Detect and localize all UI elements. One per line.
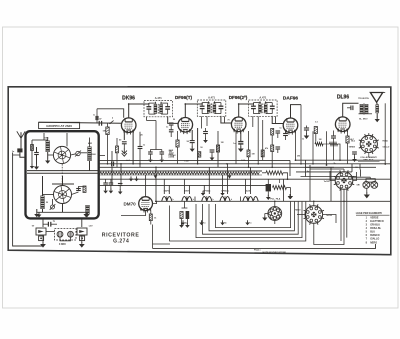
resistor R11: [346, 136, 349, 143]
svg-text:GRI: GRI: [357, 185, 361, 187]
svg-text:LEGE PER ELEMENTI: LEGE PER ELEMENTI: [356, 212, 382, 215]
wire: [347, 143, 349, 164]
junction: [132, 163, 134, 165]
wire left drop: [13, 153, 43, 247]
wire: [177, 147, 179, 164]
wire: [227, 164, 229, 194]
GRUPPO AT 2620 enclosure: [26, 131, 99, 218]
speaker coil: [376, 104, 379, 113]
wire: [42, 219, 44, 227]
junction: [287, 178, 289, 180]
svg-text:A.471: A.471: [155, 96, 162, 100]
wire: [89, 138, 91, 147]
svg-text:2: 2: [366, 220, 368, 223]
tube V3 DF96(2): [231, 117, 246, 132]
wire cathode V3: [240, 132, 242, 142]
speaker triangle: [370, 93, 382, 103]
bus (y167.3): [99, 166, 334, 168]
ground C17: [306, 133, 308, 135]
wire: [186, 219, 188, 224]
wire: [205, 128, 207, 132]
wire: [359, 164, 361, 170]
ground V1 cathode: [122, 151, 127, 154]
wire: [116, 153, 118, 168]
wire: [119, 186, 121, 191]
wire: [211, 152, 213, 157]
wire: [206, 116, 208, 126]
svg-text:1n: 1n: [143, 144, 146, 146]
connector box dashed: [55, 229, 77, 241]
pot R12 zigzag: [266, 171, 283, 175]
wire: [309, 165, 311, 201]
wire: [99, 159, 290, 161]
ground (osc): [47, 158, 49, 160]
wire screen V2: [191, 130, 193, 141]
wire: [32, 139, 48, 141]
svg-text:A.471: A.471: [259, 95, 266, 99]
wire T3 out: [272, 116, 283, 124]
pot R13 zigzag: [273, 186, 287, 190]
junction: [128, 103, 130, 105]
svg-text:1: 1: [366, 216, 368, 219]
wire: [368, 153, 370, 157]
wire: [264, 214, 266, 216]
cap C10: [169, 122, 174, 124]
wire: [240, 144, 242, 148]
wire: [123, 144, 125, 148]
junction: [248, 166, 250, 168]
svg-text:1k: 1k: [154, 218, 157, 220]
wire: [116, 138, 118, 146]
wire antenna to box: [20, 152, 26, 157]
junction: [274, 200, 276, 202]
wire: [351, 164, 353, 172]
battery plug P1: [36, 228, 46, 235]
cap C12: [190, 140, 195, 142]
junction: [155, 200, 157, 202]
wire T1 out: [168, 116, 178, 123]
wire: [80, 152, 87, 154]
wire plate V2: [185, 103, 202, 118]
ground: [36, 164, 38, 166]
wire: [149, 150, 151, 153]
wire: [323, 143, 330, 145]
band pointer 2: [154, 175, 158, 178]
wire: [310, 168, 330, 170]
wire: [81, 219, 83, 227]
wire: [314, 189, 344, 244]
wire: [287, 187, 291, 189]
svg-text:ROSA-BL: ROSA-BL: [370, 227, 381, 230]
wire: [110, 179, 112, 183]
wire: [42, 176, 44, 196]
svg-text:OSC: OSC: [44, 138, 49, 140]
wire AVC: [295, 131, 297, 160]
pointer arrow on band: [228, 175, 232, 178]
svg-text:Tw/105: Tw/105: [326, 215, 332, 217]
svg-text:47k: 47k: [265, 147, 269, 150]
wire: [347, 107, 351, 109]
cap C8: [148, 151, 153, 153]
wire: [188, 185, 190, 194]
wire: [330, 168, 344, 170]
resistor R4: [198, 152, 201, 157]
cap C5: [350, 106, 352, 111]
wire: [366, 189, 368, 194]
svg-text:VERDE: VERDE: [349, 147, 356, 149]
cap C27: [95, 116, 97, 120]
ground: [31, 164, 33, 166]
wire: [248, 157, 250, 168]
svg-text:k: k: [213, 199, 215, 201]
junction: [295, 159, 297, 161]
junction: [238, 103, 240, 105]
wire plate V5: [343, 103, 359, 117]
wire: [306, 126, 308, 129]
svg-text:BLU: BLU: [351, 141, 355, 143]
resistor R14: [149, 214, 152, 221]
wire: [250, 167, 252, 194]
wire: [155, 167, 157, 201]
svg-text:Tw/105: Tw/105: [324, 181, 330, 183]
svg-text:6: 6: [366, 234, 368, 237]
svg-text:DF96(T): DF96(T): [203, 191, 210, 193]
wire: [52, 199, 54, 205]
ground C8: [149, 157, 151, 159]
tube V6 DM70: [139, 197, 153, 211]
wire: [376, 102, 379, 104]
wire: [333, 131, 335, 137]
svg-text:1M: 1M: [252, 154, 255, 156]
ground pot: [290, 194, 292, 196]
wire: [346, 189, 348, 238]
ground f1: [202, 191, 204, 193]
wire: [161, 150, 163, 153]
svg-text:GIALLO: GIALLO: [383, 146, 390, 149]
junction: [384, 163, 386, 165]
GRUPPO AT 2620 label box: [39, 122, 80, 128]
wire: [340, 189, 342, 241]
pilot lamp LP2: [371, 182, 378, 189]
band borders: [99, 170, 262, 172]
wire: [194, 197, 196, 202]
wire: [376, 113, 378, 117]
cap C24 series: [111, 161, 113, 166]
wire: [224, 117, 226, 124]
cap C18: [331, 135, 336, 137]
wire: [257, 116, 259, 128]
wire: [275, 117, 277, 124]
svg-text:A.471: A.471: [208, 95, 215, 99]
wire: [359, 113, 373, 115]
tap c: [222, 220, 224, 222]
bus AVC (y163.8): [99, 163, 391, 165]
wire: [170, 132, 172, 137]
svg-text:8: 8: [366, 241, 368, 244]
wire: [52, 183, 74, 185]
resistor R10 zigzag: [330, 142, 338, 145]
wire: [111, 151, 113, 185]
ground: [36, 212, 38, 214]
wire: [333, 138, 335, 160]
wire: [323, 215, 336, 224]
svg-text:k: k: [193, 199, 195, 201]
wire: [285, 132, 287, 134]
filament tap DM70: [162, 197, 167, 202]
socket S-D pinout: [360, 135, 377, 152]
svg-text:VERDE: VERDE: [370, 216, 379, 219]
wire: [271, 152, 273, 168]
wire: [170, 125, 172, 130]
resistor R2: [106, 127, 109, 135]
tuning gang C-V1: [53, 146, 70, 163]
band coil L4: [85, 205, 89, 215]
connector pin J2: [68, 231, 74, 237]
antenna: [17, 131, 25, 138]
wire: [205, 134, 207, 140]
resistor R15: [180, 212, 183, 219]
svg-text:GRUPPO AT 2620: GRUPPO AT 2620: [46, 124, 72, 128]
wire: [72, 192, 79, 195]
wire: [354, 154, 356, 158]
wire: [252, 116, 254, 127]
socket S-A (pol fila): [268, 207, 282, 221]
junction: [197, 163, 199, 165]
svg-text:DM70: DM70: [184, 191, 189, 193]
wire: [152, 225, 154, 245]
wire: [267, 179, 269, 184]
cap C25: [210, 149, 215, 151]
svg-text:b: b: [112, 118, 114, 120]
wire: [139, 132, 141, 147]
wire: [36, 147, 38, 153]
wire: [203, 185, 205, 194]
cap C20: [103, 182, 108, 184]
cap C11: [169, 129, 174, 131]
tube V1 DK96: [121, 118, 136, 133]
wire plate rail V2: [197, 128, 199, 164]
legend underline: [356, 214, 390, 216]
wire: [62, 176, 64, 186]
wire: [149, 154, 151, 159]
svg-text:50: 50: [46, 202, 48, 204]
wire: [150, 149, 161, 151]
resistor R7: [271, 145, 274, 152]
ground lamps: [366, 192, 368, 194]
frame border: [8, 87, 391, 255]
ground R15: [181, 223, 183, 225]
electrolytic C23: [266, 184, 271, 191]
svg-text:X MFC: X MFC: [59, 244, 66, 246]
wire: [147, 120, 157, 122]
svg-text:1n: 1n: [166, 127, 169, 129]
wire plate V1: [129, 103, 149, 118]
wire: [120, 164, 122, 186]
filament tap DF96 2: [220, 197, 225, 202]
bus (y185.4): [99, 184, 268, 186]
wire screen V1: [132, 131, 134, 164]
svg-text:DM70: DM70: [123, 201, 136, 206]
svg-text:FILA =: FILA =: [254, 249, 261, 252]
ground C25: [211, 155, 213, 157]
wire: [110, 185, 112, 190]
wire: [43, 194, 54, 196]
wire: [163, 179, 165, 194]
band coil L3: [40, 196, 44, 210]
wire: [383, 92, 386, 94]
resistor R17: [261, 150, 264, 157]
aerial coil L2: [87, 147, 91, 162]
svg-text:ROSA: ROSA: [383, 140, 389, 143]
ground speaker: [376, 117, 378, 119]
cap C21b: [118, 183, 123, 185]
wire: [384, 103, 386, 165]
wire plate V3: [239, 103, 254, 117]
wire: [107, 123, 109, 127]
svg-text:4: 4: [366, 227, 368, 230]
padder cap C2: [76, 188, 81, 190]
wire: [305, 160, 307, 176]
tuning gang C-V2: [54, 186, 72, 204]
wire: [277, 149, 279, 153]
wire: [145, 175, 147, 197]
wire: [183, 179, 185, 194]
svg-text:PRE. FILA: PRE. FILA: [363, 159, 374, 162]
wire: [182, 207, 188, 209]
resistor Rg1: [31, 145, 34, 151]
wire: [161, 154, 163, 159]
ground C21: [110, 188, 112, 190]
svg-text:4n: 4n: [224, 222, 227, 225]
dial scale band: [100, 172, 260, 175]
wire bus in box: [27, 172, 98, 174]
tube V5 DL96: [335, 117, 350, 132]
wire plate V4: [291, 105, 302, 118]
svg-text:DF96(T): DF96(T): [175, 95, 193, 100]
wire: [13, 154, 20, 156]
wire: [79, 187, 85, 191]
svg-text:47: 47: [99, 118, 102, 121]
cap C7: [138, 146, 143, 148]
wire: [99, 155, 105, 157]
cap C15: [276, 146, 281, 148]
junction: [226, 163, 228, 165]
cap C14: [276, 130, 281, 132]
wire: [240, 197, 242, 202]
cap C9: [160, 151, 165, 153]
wire: [283, 179, 285, 201]
resistor R6: [271, 129, 274, 136]
wire: [48, 154, 54, 156]
svg-text:2M: 2M: [297, 156, 300, 158]
svg-text:1M: 1M: [103, 131, 106, 133]
svg-text:1,5M: 1,5M: [184, 161, 189, 163]
svg-text:1µ: 1µ: [53, 221, 56, 223]
filament tap DF96: [202, 197, 207, 202]
svg-text:9V: 9V: [32, 226, 35, 228]
resistor R19: [176, 140, 179, 147]
ground C9: [161, 157, 163, 159]
lamp holder: [366, 179, 375, 182]
svg-text:50: 50: [200, 147, 203, 149]
svg-text:1M: 1M: [221, 142, 224, 144]
svg-text:DK96: DK96: [122, 96, 135, 102]
ground C19: [354, 157, 356, 159]
wire: [121, 211, 146, 216]
wire: [248, 131, 250, 150]
svg-text:NOTE MODIFICAZIONI: NOTE MODIFICAZIONI: [263, 251, 287, 254]
wire: [181, 219, 183, 225]
wire: [368, 133, 370, 135]
svg-text:3: 3: [366, 224, 368, 227]
svg-text:50: 50: [187, 141, 190, 143]
AVC arrow b: [136, 176, 138, 178]
battery plug P2: [77, 228, 87, 235]
wire: [60, 237, 71, 241]
junction: [120, 163, 122, 165]
svg-text:70: 70: [227, 120, 230, 122]
switch contact S1: [110, 121, 114, 124]
wire: [262, 172, 266, 174]
wire pot tap: [279, 179, 281, 183]
junction: [326, 164, 328, 166]
ground f2: [222, 191, 224, 193]
trimmer CT2: [51, 205, 55, 209]
wire: [81, 235, 83, 243]
svg-text:TR.USCITA: TR.USCITA: [358, 97, 369, 100]
antenna coupling cap C3: [17, 148, 22, 152]
cap C19: [352, 151, 357, 153]
wire: [146, 117, 148, 121]
wire: [313, 201, 315, 205]
ground C26: [205, 138, 207, 140]
svg-text:AER: AER: [88, 142, 93, 145]
wire: [47, 152, 49, 159]
svg-text:1,5V: 1,5V: [88, 226, 93, 228]
wire: [191, 143, 193, 148]
junction: [343, 200, 345, 202]
svg-text:50: 50: [119, 139, 122, 141]
IF transformer T2: [197, 100, 226, 116]
bus (y179.2): [99, 178, 391, 180]
wire: [37, 211, 89, 213]
wire: [235, 132, 237, 164]
wire: [208, 167, 210, 194]
wire top right of loops: [289, 160, 291, 176]
wire: [155, 121, 157, 146]
wire: [42, 209, 44, 212]
coupling cap C4: [98, 121, 100, 126]
wire bus in box: [27, 170, 98, 172]
svg-text:BIANCO: BIANCO: [370, 234, 380, 237]
ground C20: [105, 188, 107, 190]
wire: [177, 131, 179, 140]
wire: [283, 173, 288, 179]
svg-text:25: 25: [140, 135, 143, 137]
wire: [301, 176, 357, 178]
svg-text:1n: 1n: [279, 128, 282, 130]
wire: [338, 144, 341, 160]
svg-text:POL. FILA: POL. FILA: [270, 198, 281, 201]
svg-text:1n: 1n: [249, 223, 252, 225]
svg-text:ELETTRICO: ELETTRICO: [370, 220, 384, 223]
bus filament (y201.3): [155, 200, 391, 202]
wire: [42, 235, 44, 243]
ground S-A: [264, 215, 266, 217]
ground V3: [240, 146, 242, 148]
cap C26: [203, 131, 208, 133]
junction: [257, 163, 259, 165]
